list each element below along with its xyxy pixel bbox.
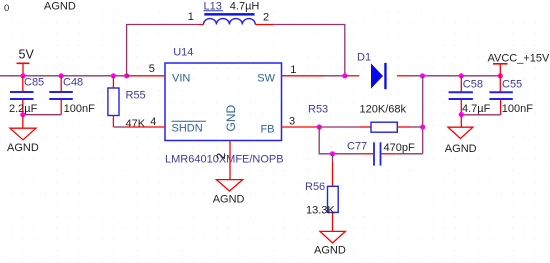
- wire: R55 to SHDN: [113, 126, 126, 128]
- svg-text:1: 1: [188, 11, 194, 23]
- wire: D1 to output rail: [410, 75, 501, 77]
- junction: rail/feedback riser: [420, 73, 425, 78]
- wire: FB node riser (output to divider): [422, 76, 424, 154]
- svg-text:C48: C48: [63, 77, 83, 89]
- wire: 5V input rail to VIN junctions: [0, 75, 127, 77]
- ground AGND (input): [7, 115, 39, 154]
- junction: rail/R55: [111, 73, 116, 78]
- svg-text:D1: D1: [357, 52, 371, 64]
- wire: R53 to riser: [410, 126, 423, 128]
- svg-text:AGND: AGND: [314, 244, 346, 256]
- ground AGND (U14): [213, 180, 245, 206]
- svg-text:VIN: VIN: [172, 72, 190, 84]
- wire: FB down to C77 row: [319, 127, 362, 154]
- pin 4 SHDN stub: [126, 126, 165, 128]
- svg-text:SHDN: SHDN: [172, 123, 203, 135]
- svg-text:2: 2: [263, 11, 269, 23]
- svg-text:C85: C85: [24, 77, 44, 89]
- ground AGND (R56): [314, 231, 346, 256]
- junction: R56 tap: [330, 151, 335, 156]
- svg-text:4.7µF: 4.7µF: [462, 103, 491, 115]
- junction: FB node: [317, 124, 322, 129]
- junction: C85 bottom/AGND: [20, 112, 25, 117]
- svg-text:4: 4: [150, 116, 156, 128]
- capacitor C85: [9, 76, 44, 115]
- svg-text:SW: SW: [257, 73, 275, 85]
- junction: rail/C48: [59, 73, 64, 78]
- resistor R53: [308, 104, 410, 133]
- svg-text:R53: R53: [308, 104, 328, 116]
- capacitor C58: [449, 76, 491, 115]
- wire: SW stub to D1 node: [324, 75, 345, 77]
- inductor L13: [188, 0, 273, 24]
- power symbol 5V: [17, 48, 35, 76]
- capacitor C48: [49, 76, 95, 115]
- junction: rail/C58: [459, 73, 464, 78]
- svg-text:AGND: AGND: [7, 142, 39, 154]
- ground AGND (output): [445, 115, 477, 156]
- svg-text:GND: GND: [224, 105, 238, 132]
- svg-text:R56: R56: [305, 181, 325, 193]
- svg-text:FB: FB: [260, 124, 274, 136]
- svg-text:AVCC_+15V: AVCC_+15V: [488, 52, 550, 64]
- pin 5 VIN stub: [127, 75, 165, 77]
- pin 2 GND stub: [229, 141, 231, 180]
- junction: rail/C85: [20, 73, 25, 78]
- wire: FB junction to R53: [319, 126, 359, 128]
- resistor R55: [108, 76, 146, 130]
- svg-text:470pF: 470pF: [384, 142, 415, 154]
- svg-text:13.3K: 13.3K: [306, 205, 335, 217]
- capacitor C55: [489, 76, 533, 115]
- svg-text:47K: 47K: [126, 118, 146, 130]
- junction: C58 bottom/AGND: [459, 112, 464, 117]
- diode D1: [345, 52, 410, 89]
- pin 3 FB stub: [282, 126, 320, 128]
- wire: riser to L13: [127, 25, 199, 76]
- power symbol AVCC_+15V: [488, 52, 550, 76]
- svg-text:0: 0: [4, 3, 9, 14]
- junction: SW/D1 node: [342, 73, 347, 78]
- svg-text:120K/68k: 120K/68k: [360, 104, 407, 116]
- wire: C85/C48 ground link: [23, 114, 61, 116]
- svg-text:5: 5: [149, 63, 155, 75]
- resistor R56: [305, 154, 338, 231]
- svg-text:C55: C55: [502, 78, 522, 90]
- svg-text:AGND: AGND: [213, 194, 245, 206]
- svg-text:100nF: 100nF: [64, 103, 95, 115]
- svg-text:AGND: AGND: [445, 143, 477, 155]
- svg-text:AGND: AGND: [44, 1, 76, 13]
- wire: L13 to SW node: [273, 25, 345, 76]
- junction: rail/L13 riser: [124, 73, 129, 78]
- svg-text:3: 3: [289, 116, 295, 128]
- svg-text:C77: C77: [347, 141, 367, 153]
- pin 1 SW stub: [282, 75, 325, 77]
- svg-text:1: 1: [290, 64, 296, 76]
- junction: rail/AVCC/C55: [498, 73, 503, 78]
- svg-text:100nF: 100nF: [502, 103, 533, 115]
- capacitor C77: [347, 141, 415, 166]
- junction: R53 right node: [420, 124, 425, 129]
- op-amp U14 (regulator LMR64010): [165, 46, 284, 165]
- svg-text:C58: C58: [463, 78, 483, 90]
- svg-text:4.7µH: 4.7µH: [230, 1, 260, 13]
- svg-text:U14: U14: [173, 46, 193, 58]
- svg-text:R55: R55: [126, 90, 146, 102]
- wire: C58/C55 ground link: [461, 114, 500, 116]
- svg-text:5V: 5V: [19, 48, 35, 62]
- svg-text:2: 2: [214, 153, 228, 160]
- wire: C77 to riser: [395, 153, 422, 155]
